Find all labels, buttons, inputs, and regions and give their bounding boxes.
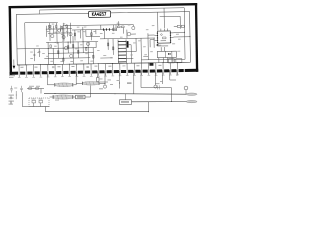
junction [114,92,117,95]
label text [54,45,57,48]
transformer T1 winding bar 3 [118,47,126,49]
bus wire y29.5 mid [100,28,116,30]
transformer T1 core [127,41,129,48]
wire [126,57,133,59]
wire [90,30,92,40]
label text [83,30,85,33]
edge connector pin wire 19 [148,68,150,75]
bus wire y57 [44,57,90,60]
wire from pad [176,70,178,76]
wire [163,8,165,28]
wire [170,88,172,102]
delay line box DL1 [76,95,86,99]
label text [150,50,153,53]
wire to edge pad [104,64,106,69]
label text [54,31,56,34]
label text [62,41,64,44]
wire loop D left drop [39,10,41,14]
edge connector pin wire 4 [40,70,42,77]
wire [131,33,136,35]
board edge pad dash 20 [157,69,162,72]
capacitor C17 (dark blob at IC corner) [157,44,159,46]
wire [69,23,71,44]
perimeter wire loop B left vertical [24,23,27,65]
wire to edge pad [119,63,121,68]
title box KA4657 [89,11,111,18]
board edge pad dash 4 [42,71,47,74]
wire [112,39,114,55]
IC U1 top pin 13 [166,28,168,30]
perimeter wire loop C right vertical [179,16,181,28]
title text 7 [104,12,106,15]
wire [148,34,154,36]
wire [33,49,35,61]
label text [177,50,180,53]
wire [66,25,68,36]
sub-frame corner [86,35,100,37]
junction [170,100,173,103]
label text [29,85,34,88]
junction [118,82,121,85]
IC U1 right pin pad 7 [170,35,171,36]
bottom ground bus [45,111,148,113]
label text [46,55,49,58]
label text [34,67,37,68]
edge connector pin wire 18 [140,68,142,75]
wire [85,96,91,98]
junction [15,94,18,97]
title text 4 [97,12,99,15]
main board outline, left edge [9,6,13,75]
wire riser [90,86,92,98]
junction [54,92,57,95]
wire [59,25,61,30]
capacitor C5 [33,54,35,55]
label text [52,23,54,26]
wire [95,42,97,48]
main board outline, bottom-right solid corner [185,69,199,72]
label text [61,33,63,36]
wire from pad [154,70,156,85]
label text [75,47,78,50]
bus wire right lower [141,58,185,61]
relay box K1 [120,100,132,105]
resistor R10 [93,55,94,58]
wire from pad [75,72,77,85]
IC U1 left pin pad 4 [157,40,158,41]
IC U1 left pin pad 2 [157,35,158,36]
capacitor C12 [10,96,12,100]
cable loom L3 (hatched ellipse) [53,95,74,99]
label text [158,44,161,47]
board edge pad dash 22 [171,69,176,72]
resistor R13 [117,26,120,28]
wire to edge pad [76,64,78,69]
diode D3 [105,28,108,30]
perimeter wire loop C top [160,15,180,17]
edge connector pin wire 17 [133,68,135,75]
IC U1 left pin wire [155,39,157,41]
board edge pad dash 21 [164,69,169,72]
resistor R20 [36,88,39,90]
label text [20,67,23,68]
board edge pad dash 7 [63,71,68,74]
connector CN1 divider [165,51,167,57]
wire to edge pad [68,64,70,69]
wire [130,45,132,63]
wire [143,55,148,57]
capacitor C14 [158,85,160,89]
transformer T1 winding bar 1 [118,40,126,42]
riser [44,107,46,112]
wire [126,50,136,52]
resistor R18 [181,25,184,27]
capacitor C10 [10,86,13,93]
transistor Q2 [58,29,61,32]
wire [162,58,164,63]
resistor R2 [56,25,57,28]
wire [160,47,162,51]
label text [85,52,88,55]
wire from pad [169,70,171,80]
transistor Q8 [132,26,135,29]
label text [93,30,95,33]
junction [147,61,150,64]
inner frame A [16,12,190,65]
label text [130,54,133,57]
bus wire upper-left [46,28,72,30]
board edge pad dash 16 [128,70,133,73]
resistor R22 [113,28,117,31]
resistor R11 [63,58,64,61]
title text K [92,13,94,16]
resistor R16 [112,47,113,50]
wire [74,96,76,98]
board edge pad dash 6 [56,71,61,74]
wire from pad [133,71,135,94]
IC U1 internal mark [162,37,166,39]
label text [112,32,115,35]
wire to edge pad [61,64,63,69]
shield box S1 [168,59,174,63]
wire [157,12,159,30]
junction [162,61,165,64]
wire [100,25,102,29]
junction [176,61,179,64]
wire [135,38,137,51]
IC U1 internal mark [161,34,163,36]
board edge pad dash 2 [27,71,32,74]
IC U1 right pin pad 10 [170,42,171,43]
label text [152,24,155,27]
resistor R14 [121,26,124,28]
board edge pad dash 19 [150,69,155,72]
dashed module box [29,98,49,107]
wire [125,94,127,100]
wire [126,30,128,39]
label text [103,54,106,57]
transformer T1 winding bar 5 [118,54,126,56]
resistor R4c [74,33,75,36]
wire [103,29,105,38]
label text [47,30,49,33]
connector CN1 contact [170,53,171,55]
label text [158,65,161,66]
label text [160,80,163,83]
title text 6 [100,12,101,15]
board edge pad dash 12 [99,70,104,73]
board edge pad dash 9 [78,71,83,74]
board edge pad dash 10 [85,71,90,74]
junction [104,82,107,85]
wire [170,79,176,81]
board edge pad dash 3 [35,71,40,74]
resistor chain wire [15,91,17,99]
label text [36,45,39,48]
wire [171,57,173,62]
label text [143,45,146,48]
label text [80,43,82,46]
wire [173,36,189,38]
label text [70,60,73,63]
wire [92,48,94,64]
resistor R8 [77,50,78,53]
label text [94,66,97,67]
transistor Q5 [70,54,73,57]
label text [60,60,63,63]
label text [9,98,14,99]
wire [62,27,65,64]
transistor Q6 [86,42,89,45]
wire [87,42,89,64]
wire [164,47,166,51]
edge connector pin wire 7 [61,70,63,77]
transistor Q4a [69,33,72,36]
IC U1 left pin wire [154,35,156,37]
junction [39,63,42,66]
perimeter wire loop D (top) [40,8,185,10]
output bus 1 [44,92,187,95]
wire from pad [104,71,106,85]
transformer T1 winding bar 7 [118,61,126,63]
riser hook [148,102,150,112]
junction [54,63,57,66]
label text under board edge [9,76,14,79]
resistor R7 [67,46,68,49]
label text [100,32,103,35]
wire [132,25,134,27]
wire to edge pad [169,63,171,68]
transformer T1 winding bar 2 [118,44,126,46]
shield box S2 [176,59,182,63]
label text [138,39,141,42]
board edge pad dash 8 [71,71,76,74]
junction [72,52,75,55]
junction [97,62,100,65]
junction [47,47,50,50]
wire [72,36,74,64]
wire [149,40,151,48]
title text A [95,13,97,16]
board edge pad dash 14 [114,70,119,73]
board edge pad dash 11 [92,70,97,73]
label text [108,79,112,82]
transformer T1 winding bar 6 [118,57,126,59]
resistor R4 [66,25,67,28]
junction [82,40,85,43]
wire [40,89,42,94]
transformer T1 right rail [125,39,127,63]
edge connector pin wire 14 [112,69,114,76]
label text [171,60,174,61]
label text [37,51,40,54]
edge connector pin wire 22 [169,68,171,75]
board edge pad dash 17 [135,70,140,73]
resistor R15 [107,43,108,46]
board edge pad dash 23 [179,69,184,72]
perimeter wire loop D right vertical [183,8,186,59]
edge connector pin wire 2 [25,70,27,77]
wire from pad [162,70,164,84]
wire [100,81,108,83]
label text [90,60,93,63]
label text under board edge [9,75,15,76]
label text [9,104,14,105]
wire [67,42,69,53]
IC U1 left pin pad 1 [157,33,158,34]
wire [85,30,87,37]
edge connector pin wire 6 [54,70,56,77]
label text [127,83,132,84]
board edge pad dash 13 [107,70,112,73]
label text [136,65,139,66]
capacitor C11 [20,86,23,92]
label text [99,88,103,89]
junction [92,51,95,54]
perimeter wire loop B top [25,21,58,24]
wire [118,21,120,26]
connector CN1 body [157,51,176,58]
edge connector pin wire 3 [33,70,35,77]
bus wire y41 [46,41,98,44]
wire [49,23,51,41]
board edge pad dash 1 [20,72,25,75]
resistor R19 [29,88,32,90]
label text [176,33,179,36]
relay label [121,101,129,102]
edge connector pin wire 11 [90,69,92,76]
junction [54,41,57,44]
cable loom L1 (hatched ellipse) [54,83,73,87]
wire [115,25,117,28]
resistor R1 [48,25,51,27]
bus wire y52 [48,52,93,55]
label text [120,36,123,39]
output bus 2 [132,101,187,103]
wire from pad [118,71,120,89]
wire to edge pad [112,63,114,68]
wire [38,49,40,57]
wire to edge pad [126,63,128,68]
bus wire [48,32,70,34]
junction [183,31,186,34]
diode D4 [108,28,111,30]
wire [100,82,105,84]
resistor R21 [97,78,99,82]
IC U1 right pin pad 9 [170,40,171,41]
junction [62,47,65,50]
connector CN1 contact [168,53,169,55]
wire [79,30,81,38]
component inside module [39,100,43,103]
label text [84,26,87,29]
edge connector pin wire 9 [76,69,78,76]
transistor Q7 [127,32,131,36]
label text [50,60,53,63]
resistor R5 [50,45,51,48]
IC U1 label [161,40,167,41]
delay line label [77,96,84,97]
label text [100,78,103,81]
label text [144,53,147,56]
junction [64,24,67,27]
transformer T1 left rail [117,40,119,64]
resistor R6 [58,51,59,54]
resistor R4d [91,33,92,36]
wire to edge pad [148,63,150,68]
wire [122,28,124,34]
edge connector pin wire 8 [69,69,71,76]
edge connector pin wire 15 [119,69,121,76]
transformer T1 winding bar 4 [118,51,126,53]
capacitor C9 [86,66,88,67]
title text 5 [102,12,104,15]
main board outline, right edge [195,3,198,72]
output terminal oval 2 [186,100,197,102]
wire [167,57,169,62]
junction [147,110,150,113]
IC U1 right pin pad 6 [170,32,171,33]
junction [25,63,28,66]
edge connector pin wire 1 [18,70,20,77]
label text [110,83,113,86]
connector CN1 divider [171,51,173,57]
label text [9,101,15,102]
transistor Q9 [103,85,106,88]
wire [47,84,54,86]
resistor R3 [61,26,62,29]
wire [185,90,187,94]
wire to edge pad [140,60,142,68]
cable loom L2 (hatched ellipse) [82,82,100,86]
transistor Q3 [62,35,65,38]
main bus y38.8 [100,37,155,40]
junction [32,63,35,66]
junction [62,57,65,60]
label text [133,41,136,44]
edge connector pin wire 21 [162,68,164,75]
bus wire y47 (long from left rail) [17,48,96,49]
junction [189,35,192,38]
wire [141,87,171,89]
output terminal oval 1 [186,93,197,95]
transistor Q1 [51,34,54,37]
transistor Q4 [64,46,67,49]
wire to edge pad [162,63,164,68]
label text [14,87,17,90]
wire [100,57,112,59]
board edge pad dash 5 [49,71,54,74]
